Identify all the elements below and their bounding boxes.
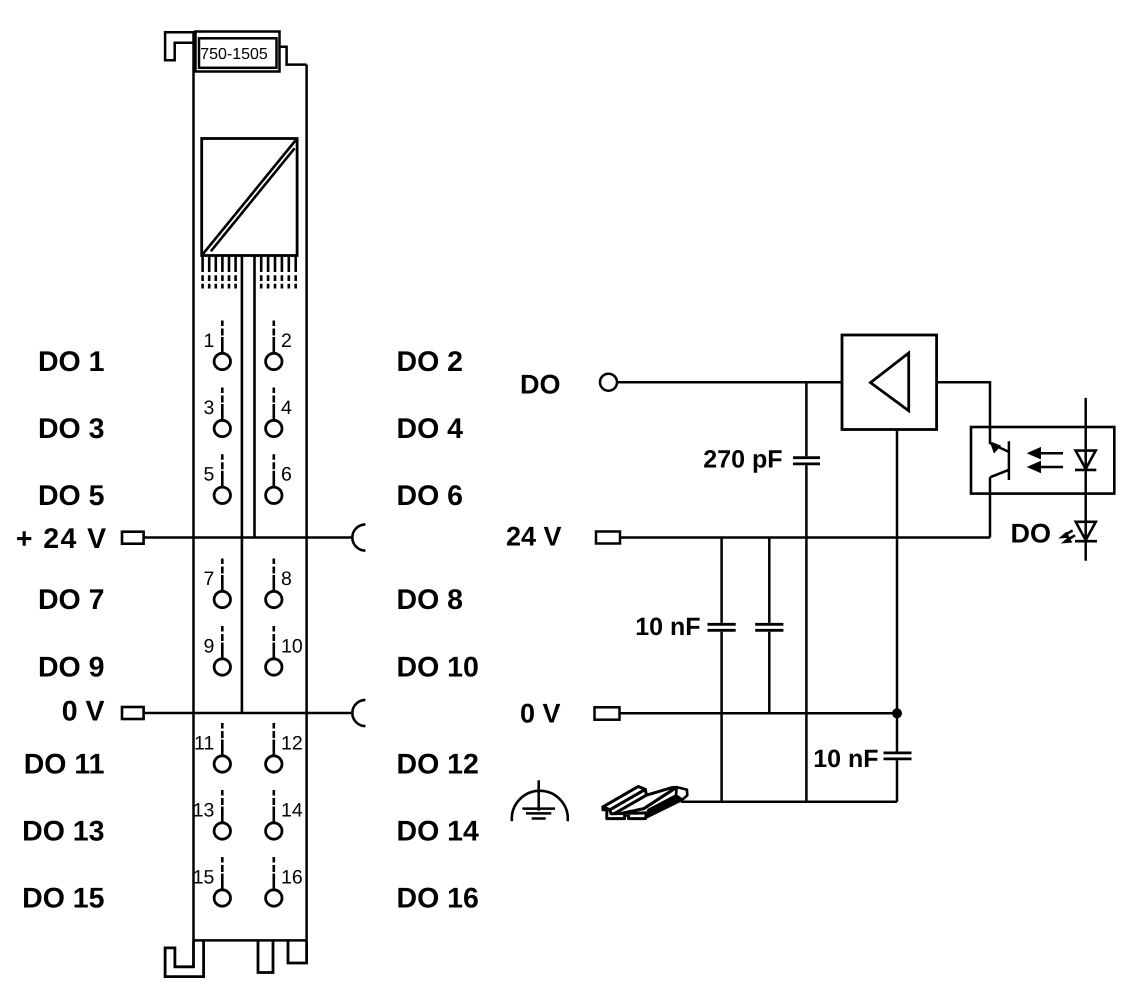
LED D2 status indicator [1075,522,1097,541]
filter diagonal line 2 [211,148,295,251]
terminal 24 V [596,532,620,544]
amplifier U1 box [842,335,937,430]
wire 0 V [144,712,353,715]
capacitor C3 10 nF [884,713,912,802]
contact 4 [266,388,282,437]
internal bus wire right [253,256,256,538]
contact 5 [214,454,230,503]
contact 14 [266,790,282,839]
module body right edge [305,65,308,941]
svg-text:24 V: 24 V [506,522,562,552]
LED D1 inside optocoupler [1075,398,1096,561]
wire amplifier output to optocoupler [937,382,990,427]
svg-text:10: 10 [281,635,303,657]
internal bus wire left [241,256,244,714]
svg-text:270 pF: 270 pF [703,446,782,474]
svg-text:DO 10: DO 10 [397,652,479,684]
power jumper contact +24 V [352,524,365,550]
svg-text:12: 12 [281,732,303,754]
power jumper contact 0 V [352,700,365,726]
contact 13 [214,790,230,839]
ground bus wire [681,801,897,804]
svg-text:DO 4: DO 4 [397,413,464,445]
svg-text:6: 6 [281,464,292,486]
contact 2 [266,321,282,370]
svg-text:7: 7 [203,568,214,590]
terminal 0 V [122,707,144,719]
junction node dot [892,708,902,718]
wire DO to amplifier [617,381,842,384]
svg-text:DO 8: DO 8 [397,584,464,616]
capacitor 270 pF [793,382,820,802]
module bottom latch foot left [165,940,204,976]
wire +24 V [144,536,353,539]
svg-text:14: 14 [281,799,303,821]
svg-text:DO 1: DO 1 [38,346,105,378]
amplifier triangle [871,353,909,411]
module bottom foot right [288,940,307,963]
svg-text:8: 8 [281,568,292,590]
contact 6 [266,454,282,503]
contact 16 [266,857,282,906]
svg-text:2: 2 [281,330,292,352]
svg-text:DO 12: DO 12 [397,749,479,781]
svg-text:1: 1 [203,330,214,352]
terminal 0 V [595,707,620,719]
svg-text:DO: DO [520,370,561,400]
contact 9 [214,626,230,675]
svg-text:10 nF: 10 nF [635,613,700,641]
contact 7 [214,559,230,608]
svg-text:DO 14: DO 14 [397,816,480,848]
phototransistor Q1 [990,427,1009,480]
svg-text:+ 24 V: + 24 V [16,523,108,555]
wire 24 V rail [620,536,990,539]
module top step right [280,47,307,65]
wire amplifier bottom to 0 V node [896,430,899,714]
svg-text:DO 11: DO 11 [24,749,105,781]
svg-text:DO 7: DO 7 [38,584,105,616]
module body left edge [192,32,195,940]
terminal +24 V [122,532,144,544]
svg-text:9: 9 [203,635,214,657]
svg-text:0 V: 0 V [62,696,105,728]
svg-text:13: 13 [193,799,215,821]
DIN rail icon [603,787,687,819]
capacitor C2 10 nF [755,538,783,714]
connector pins left group [203,256,236,273]
contact 15 [214,857,230,906]
svg-text:0 V: 0 V [520,699,561,729]
filter diagonal line 1 [202,139,297,256]
contact 11 [214,723,230,772]
label plate inner box [199,38,277,68]
svg-text:DO 5: DO 5 [38,480,105,512]
svg-text:DO 16: DO 16 [397,883,479,915]
svg-text:16: 16 [281,866,303,888]
optocoupler U2 box [971,427,1114,494]
label plate outer box [196,32,280,72]
svg-text:10 nF: 10 nF [813,745,878,773]
light arrow lower [1028,462,1063,473]
svg-text:750-1505: 750-1505 [200,46,268,63]
svg-text:DO 9: DO 9 [38,652,105,684]
module bottom foot middle [258,940,273,972]
svg-text:DO 13: DO 13 [22,816,104,848]
svg-text:DO 2: DO 2 [397,346,464,378]
terminal DO input [600,374,617,391]
LED flash arrows [1060,530,1075,543]
earth ground symbol [512,780,568,821]
svg-text:11: 11 [194,732,214,754]
svg-text:15: 15 [193,866,215,888]
electronics block U0 (filter square) [202,139,297,256]
contact 12 [266,723,282,772]
svg-text:3: 3 [203,397,214,419]
wire 0 V rail [620,712,898,715]
svg-text:DO: DO [1011,519,1052,549]
connector pins right group [261,256,296,273]
contact 8 [266,559,282,608]
svg-text:DO 3: DO 3 [38,413,105,445]
capacitor C1 10 nF [708,538,736,802]
contact 10 [266,626,282,675]
connector pins left dashes [203,275,236,288]
module mounting tab top-left [165,32,195,60]
module bottom edge [194,939,307,942]
svg-text:DO 15: DO 15 [22,883,105,915]
svg-text:5: 5 [203,464,214,486]
wire phototransistor emitter to 24 V rail [989,477,992,537]
svg-text:DO 6: DO 6 [397,480,464,512]
light arrow upper [1028,448,1063,459]
contact 1 [214,321,230,370]
connector pins right dashes [261,275,296,288]
contact 3 [214,388,230,437]
svg-text:4: 4 [281,397,292,419]
